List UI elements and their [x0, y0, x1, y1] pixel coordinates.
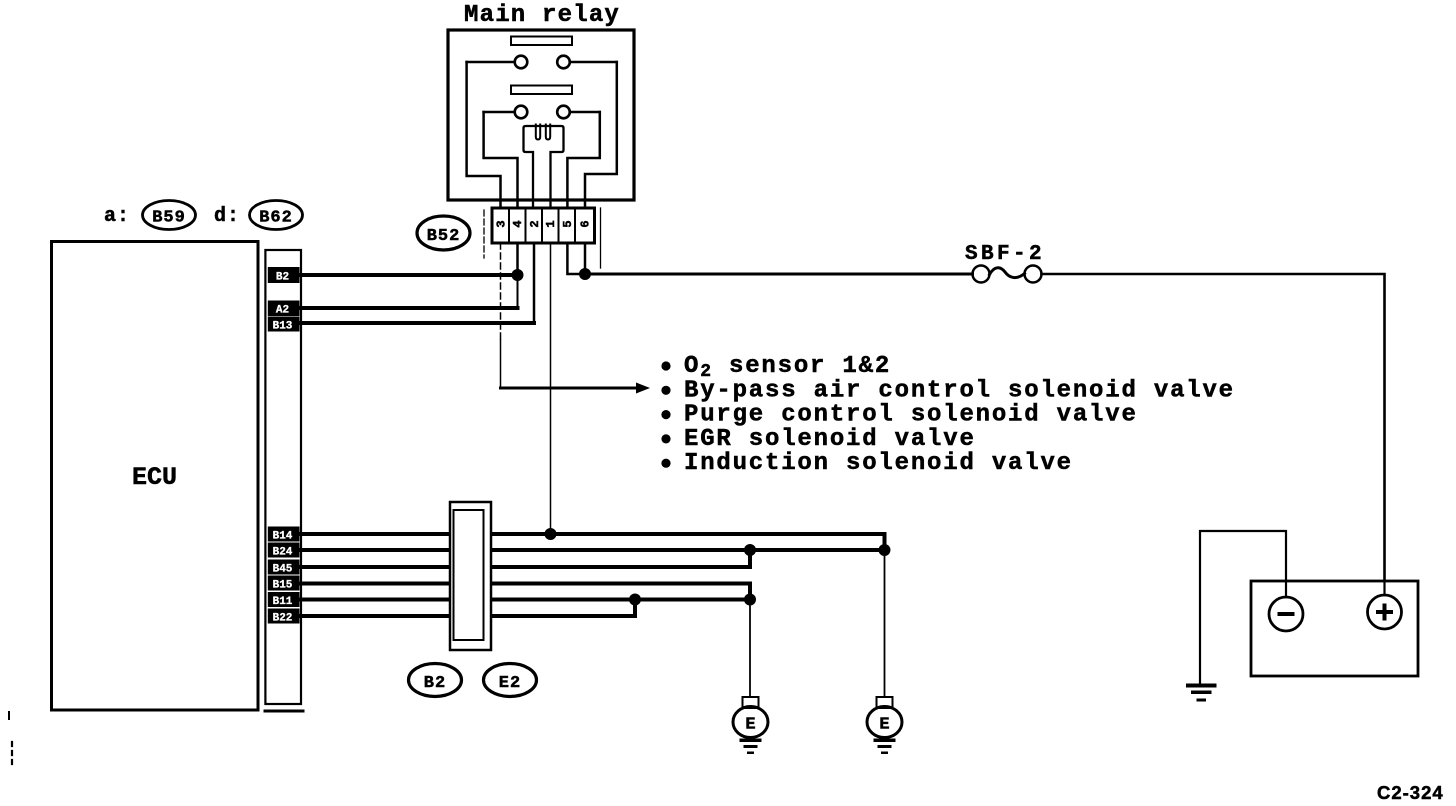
wire ECU c to relay pin3	[301, 321, 534, 325]
svg-text:B45: B45	[273, 564, 293, 576]
relay contact 1 left	[515, 56, 528, 69]
node wire2/wire3 junction	[744, 544, 756, 556]
ECU connector column	[265, 250, 301, 704]
wire right rail A	[585, 62, 617, 208]
battery minus stub	[1285, 581, 1287, 597]
wire pin6 to fuse SBF-2	[585, 273, 973, 276]
battery plus stub	[1383, 581, 1385, 595]
svg-text:B52: B52	[427, 227, 461, 246]
svg-text:B59: B59	[152, 209, 186, 228]
wire right rail B	[567, 112, 599, 208]
ECU pin cell 5	[268, 592, 300, 607]
wire 3 ECU, joins wire2	[301, 550, 750, 567]
svg-text:B24: B24	[273, 547, 293, 559]
svg-text:E: E	[745, 716, 755, 735]
oval label B62	[250, 201, 303, 230]
scan artifact left margin 2	[8, 712, 10, 719]
bullet EGR solenoid valve	[661, 434, 670, 443]
svg-text:Induction solenoid valve: Induction solenoid valve	[684, 450, 1073, 477]
oval label B59	[143, 201, 196, 230]
relay coil body	[524, 126, 564, 208]
bullet O2 sensor 1&2	[661, 361, 670, 370]
wire junction down to ECU b wire	[517, 275, 519, 308]
svg-text:6: 6	[579, 220, 593, 227]
svg-text:By-pass air control solenoid v: By-pass air control solenoid valve	[684, 377, 1235, 404]
svg-text:A2: A2	[276, 305, 289, 317]
svg-text:ECU: ECU	[132, 463, 177, 492]
node wire5/wire4 junction	[744, 594, 756, 606]
wire relay pin3 down to ECU wire c	[533, 243, 536, 323]
svg-text:4: 4	[511, 220, 525, 227]
svg-text:B2: B2	[276, 272, 289, 284]
strip housing mark left	[483, 210, 485, 258]
ECU pin cell b	[268, 301, 300, 317]
ECU pin cell 6	[268, 609, 300, 624]
svg-text:EGR solenoid valve: EGR solenoid valve	[684, 426, 976, 453]
svg-text:Main relay: Main relay	[464, 2, 620, 29]
strip divider 3	[541, 209, 543, 242]
wire 1 ECU to right corner	[301, 534, 885, 550]
ECU pin cell c	[268, 317, 300, 332]
relay contact 2 right	[557, 106, 570, 119]
arrow to solenoid valve list	[501, 387, 638, 390]
ECU bottom edge extension	[265, 710, 303, 713]
bullet Purge control solenoid valve	[661, 410, 670, 419]
wire fuse to battery plus	[1042, 274, 1385, 595]
ECU pin cell 1	[268, 527, 300, 542]
connector B2/E2 inner	[454, 510, 484, 640]
wire contact1-left to rail	[467, 61, 515, 64]
connector B52 strip	[492, 208, 595, 243]
svg-text:B2: B2	[424, 674, 446, 693]
wire 4 ECU, joins wire5	[301, 584, 750, 600]
battery minus terminal	[1269, 597, 1303, 631]
ground 1 bars	[740, 739, 762, 743]
scan artifact left margin	[11, 742, 13, 766]
wire left rail A	[467, 62, 501, 208]
svg-text:SBF-2: SBF-2	[965, 243, 1045, 266]
strip divider 2	[525, 209, 527, 242]
relay coil slots	[536, 125, 550, 140]
battery box	[1251, 581, 1418, 676]
oval label B52	[417, 216, 470, 250]
wire left rail B	[484, 112, 518, 208]
ECU pin cell 3	[268, 560, 300, 575]
fuse SBF-2 link	[990, 268, 1025, 278]
wire ECU a to relay pin2	[301, 273, 518, 277]
connector B2/E2 outer	[450, 502, 491, 650]
svg-text:1: 1	[544, 220, 558, 227]
wire contact2-left to rail	[484, 111, 515, 114]
node wire5/wire6 junction	[629, 594, 641, 606]
wire battery minus to chassis ground	[1200, 531, 1286, 684]
node pin5/pin6 junction	[579, 268, 591, 280]
wire 5 ECU to ground 1	[301, 598, 750, 602]
svg-text:E2: E2	[499, 674, 521, 693]
ground 2 neck	[877, 697, 893, 708]
strip housing mark right	[600, 208, 602, 268]
relay contact bar 2	[511, 86, 572, 95]
ECU pin cell 4	[268, 576, 300, 591]
svg-text:2: 2	[528, 220, 542, 227]
oval label E2	[484, 664, 537, 697]
oval label B2	[409, 664, 462, 697]
wire relay pin5 down	[567, 243, 585, 274]
battery plus terminal	[1368, 595, 1402, 629]
node wire1/pin4 junction	[545, 528, 557, 540]
ground 2 circle E	[867, 707, 902, 738]
node relay pin2 junction	[512, 269, 524, 281]
relay contact 1 right	[557, 56, 570, 69]
chassis ground bars	[1186, 684, 1217, 688]
wire relay pin2 down	[516, 243, 519, 275]
fuse SBF-2 left circle	[973, 266, 990, 283]
strip divider 4	[558, 209, 560, 242]
svg-text:a:: a:	[104, 205, 130, 228]
svg-text:B22: B22	[273, 613, 293, 625]
ground 1 circle E	[733, 707, 768, 738]
wire 6 ECU, joins wire5	[301, 600, 635, 617]
svg-text:C2-324: C2-324	[1377, 782, 1444, 803]
fuse SBF-2 right circle	[1025, 266, 1042, 283]
svg-text:5: 5	[561, 220, 575, 227]
bullet Induction solenoid valve	[661, 459, 670, 468]
wire ECU b	[301, 306, 518, 310]
wire contact1-right to rail	[570, 61, 617, 64]
svg-text:B11: B11	[273, 596, 293, 608]
wire contact2-right to rail	[570, 111, 600, 114]
wire relay pin1 down to arrow (upper, scan-dashed)	[500, 243, 502, 340]
relay contact bar 1	[511, 37, 572, 46]
svg-text:Purge control solenoid valve: Purge control solenoid valve	[684, 402, 1138, 429]
svg-text:E: E	[879, 716, 889, 735]
wire relay pin1 down to arrow (lower)	[500, 340, 502, 388]
wire down to ground 2	[884, 550, 886, 697]
relay contact 2 left	[515, 106, 528, 119]
ECU box	[52, 242, 259, 711]
node wire2/wire1 junction	[879, 544, 891, 556]
strip divider 1	[508, 209, 510, 242]
svg-text:B13: B13	[273, 321, 293, 333]
relay box U1	[448, 30, 634, 200]
bullet By-pass air control solenoid valve	[661, 386, 670, 395]
svg-text:B14: B14	[273, 531, 293, 543]
ground 2 bars	[874, 739, 896, 743]
svg-text:B15: B15	[273, 580, 293, 592]
strip divider 5	[574, 209, 576, 242]
wire 2 ECU to ground branch	[301, 548, 885, 552]
wire down to ground 1	[749, 600, 751, 698]
wire relay pin4 down to node on wire 1	[550, 243, 552, 534]
ECU pin cell 2	[268, 543, 300, 558]
svg-text:3: 3	[495, 220, 509, 227]
ground 1 neck	[743, 697, 759, 708]
svg-text:B62: B62	[259, 209, 293, 228]
wire relay pin6 down	[584, 243, 587, 274]
ECU pin cell a	[268, 267, 300, 283]
svg-text:d:: d:	[214, 205, 240, 228]
